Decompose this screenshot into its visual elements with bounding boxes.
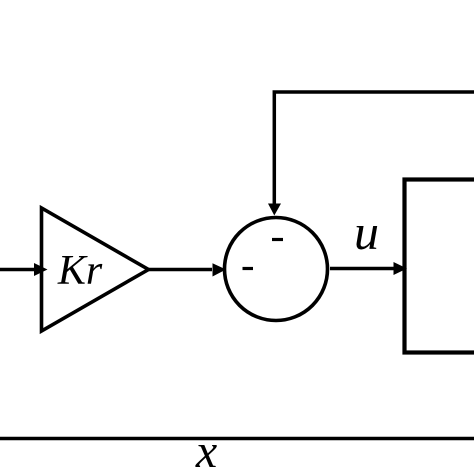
svg-text:u: u bbox=[354, 204, 379, 260]
svg-text:x: x bbox=[195, 425, 217, 474]
svg-text:Kr: Kr bbox=[57, 248, 103, 294]
